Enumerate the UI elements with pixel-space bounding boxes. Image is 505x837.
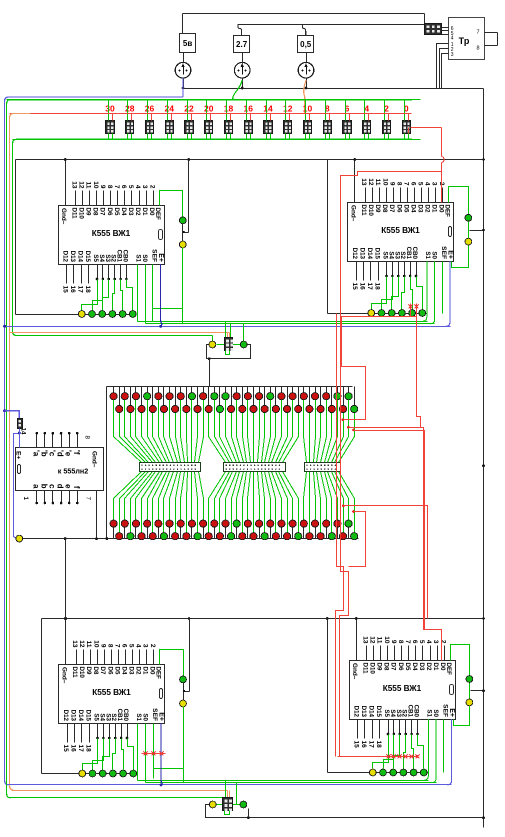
svg-text:15: 15 xyxy=(351,283,358,291)
svg-text:16: 16 xyxy=(70,745,77,753)
svg-text:7: 7 xyxy=(476,30,479,36)
svg-text:10: 10 xyxy=(381,178,388,186)
svg-text:SEF: SEF xyxy=(151,249,158,262)
svg-text:CB0: CB0 xyxy=(413,705,420,718)
svg-text:7: 7 xyxy=(402,182,409,186)
svg-text:D12: D12 xyxy=(62,710,69,722)
svg-text:к 555лн2: к 555лн2 xyxy=(58,467,89,476)
svg-text:E+: E+ xyxy=(157,253,164,262)
svg-text:7: 7 xyxy=(85,497,92,501)
svg-text:13: 13 xyxy=(360,178,367,186)
svg-text:SEF: SEF xyxy=(440,246,447,259)
svg-text:D3: D3 xyxy=(418,663,425,671)
svg-text:К555 ВЖ1: К555 ВЖ1 xyxy=(92,229,131,238)
svg-text:8: 8 xyxy=(395,182,402,186)
svg-text:S0: S0 xyxy=(431,251,438,259)
svg-text:5: 5 xyxy=(418,640,425,644)
svg-text:4: 4 xyxy=(134,185,141,189)
svg-text:D14: D14 xyxy=(77,710,84,722)
svg-text:6: 6 xyxy=(120,185,127,189)
svg-text:16: 16 xyxy=(69,286,76,294)
svg-text:6: 6 xyxy=(411,640,418,644)
svg-text:D14: D14 xyxy=(367,706,374,718)
svg-text:Тр: Тр xyxy=(459,36,470,46)
svg-text:D7: D7 xyxy=(388,205,395,213)
svg-text:18: 18 xyxy=(84,745,91,753)
svg-text:7: 7 xyxy=(113,185,120,189)
svg-text:10: 10 xyxy=(92,640,99,648)
svg-text:Gnd–: Gnd– xyxy=(351,663,358,680)
svg-text:SEF: SEF xyxy=(151,708,158,721)
svg-text:Gnd–: Gnd– xyxy=(61,667,68,684)
svg-text:17: 17 xyxy=(366,283,373,291)
svg-text:D13: D13 xyxy=(69,710,76,722)
svg-text:5: 5 xyxy=(417,182,424,186)
svg-text:7: 7 xyxy=(404,640,411,644)
svg-text:D1: D1 xyxy=(141,208,148,216)
svg-text:D10: D10 xyxy=(78,667,85,679)
svg-text:16: 16 xyxy=(360,741,367,749)
svg-text:E+: E+ xyxy=(15,451,22,459)
svg-text:6: 6 xyxy=(121,644,128,648)
svg-text:2: 2 xyxy=(148,185,155,189)
svg-text:16: 16 xyxy=(359,283,366,291)
svg-text:DEF: DEF xyxy=(445,663,452,676)
svg-text:D5: D5 xyxy=(113,667,120,675)
svg-text:8: 8 xyxy=(106,644,113,648)
svg-text:e: e xyxy=(64,484,73,489)
svg-text:3: 3 xyxy=(431,182,438,186)
svg-text:D11: D11 xyxy=(360,205,367,217)
svg-text:15: 15 xyxy=(62,745,69,753)
svg-text:D6: D6 xyxy=(397,663,404,671)
svg-text:2: 2 xyxy=(439,640,446,644)
svg-text:S0: S0 xyxy=(141,254,148,262)
svg-text:12: 12 xyxy=(369,636,376,644)
svg-text:S1: S1 xyxy=(135,713,142,721)
svg-text:17: 17 xyxy=(76,286,83,294)
svg-text:SEF: SEF xyxy=(442,704,449,717)
svg-text:Gnd–: Gnd– xyxy=(60,208,67,225)
svg-text:0,5: 0,5 xyxy=(300,40,312,49)
svg-text:D2: D2 xyxy=(134,208,141,216)
svg-text:E+: E+ xyxy=(447,250,454,259)
svg-text:20: 20 xyxy=(204,104,214,114)
svg-text:b: b xyxy=(39,484,48,489)
svg-text:13: 13 xyxy=(362,636,369,644)
svg-text:D7: D7 xyxy=(390,663,397,671)
svg-text:D4: D4 xyxy=(409,205,416,213)
svg-text:5: 5 xyxy=(127,185,134,189)
svg-text:D1: D1 xyxy=(432,663,439,671)
svg-text:17: 17 xyxy=(367,741,374,749)
svg-text:D6: D6 xyxy=(106,667,113,675)
svg-text:D10: D10 xyxy=(367,205,374,217)
svg-text:12: 12 xyxy=(78,640,85,648)
svg-text:D5: D5 xyxy=(402,205,409,213)
svg-text:DEF: DEF xyxy=(154,208,161,221)
svg-text:D9: D9 xyxy=(85,208,92,216)
svg-text:9: 9 xyxy=(99,644,106,648)
svg-text:18: 18 xyxy=(224,104,234,114)
svg-text:D9: D9 xyxy=(374,205,381,213)
svg-text:12: 12 xyxy=(283,104,293,114)
svg-text:14: 14 xyxy=(263,104,273,114)
svg-text:11: 11 xyxy=(85,182,92,189)
svg-text:К555 ВЖ1: К555 ВЖ1 xyxy=(381,226,420,235)
svg-text:c: c xyxy=(48,484,57,489)
svg-text:D8: D8 xyxy=(92,667,99,675)
svg-text:D4: D4 xyxy=(120,208,127,216)
svg-text:D3: D3 xyxy=(416,205,423,213)
svg-text:D4: D4 xyxy=(411,663,418,671)
svg-text:D10: D10 xyxy=(78,208,85,220)
svg-text:10: 10 xyxy=(383,636,390,644)
svg-text:D13: D13 xyxy=(358,248,365,260)
svg-text:D9: D9 xyxy=(85,667,92,675)
svg-text:D5: D5 xyxy=(404,663,411,671)
svg-text:D3: D3 xyxy=(127,208,134,216)
svg-text:24: 24 xyxy=(165,104,175,114)
svg-text:S0: S0 xyxy=(142,713,149,721)
svg-text:3: 3 xyxy=(142,644,149,648)
svg-text:30: 30 xyxy=(105,104,115,114)
svg-text:9: 9 xyxy=(388,182,395,186)
svg-text:D6: D6 xyxy=(106,208,113,216)
svg-text:'e: 'e xyxy=(64,450,73,457)
svg-text:D15: D15 xyxy=(373,248,380,260)
svg-text:18: 18 xyxy=(373,283,380,291)
svg-text:D12: D12 xyxy=(351,248,358,260)
svg-text:f: f xyxy=(72,486,81,489)
svg-text:S1: S1 xyxy=(135,254,142,262)
svg-text:К555 ВЖ1: К555 ВЖ1 xyxy=(383,684,422,693)
svg-text:D8: D8 xyxy=(381,205,388,213)
svg-text:11: 11 xyxy=(376,637,383,644)
svg-text:1: 1 xyxy=(22,497,29,501)
svg-text:a: a xyxy=(31,484,40,489)
svg-text:CB0: CB0 xyxy=(122,709,129,722)
svg-text:D1: D1 xyxy=(142,667,149,675)
svg-text:D15: D15 xyxy=(375,706,382,718)
svg-text:7: 7 xyxy=(113,644,120,648)
svg-text:D14: D14 xyxy=(76,251,83,263)
svg-text:11: 11 xyxy=(374,179,381,186)
svg-text:Gnd–: Gnd– xyxy=(350,205,357,222)
svg-text:D15: D15 xyxy=(84,251,91,263)
svg-text:8: 8 xyxy=(106,185,113,189)
svg-text:9: 9 xyxy=(390,640,397,644)
svg-text:3: 3 xyxy=(432,640,439,644)
svg-text:S1: S1 xyxy=(426,709,433,717)
svg-text:E+: E+ xyxy=(158,712,165,721)
svg-text:S1: S1 xyxy=(424,251,431,259)
svg-text:16: 16 xyxy=(244,104,254,114)
svg-text:D11: D11 xyxy=(71,667,78,679)
svg-text:4: 4 xyxy=(135,644,142,648)
svg-text:CB0: CB0 xyxy=(411,247,418,260)
svg-text:12: 12 xyxy=(367,178,374,186)
svg-text:3: 3 xyxy=(141,185,148,189)
svg-text:6: 6 xyxy=(410,182,417,186)
svg-text:D15: D15 xyxy=(84,710,91,722)
svg-text:12: 12 xyxy=(78,181,85,189)
svg-text:D3: D3 xyxy=(127,667,134,675)
svg-text:Gnd–: Gnd– xyxy=(91,451,98,468)
svg-text:D2: D2 xyxy=(425,663,432,671)
svg-text:D6: D6 xyxy=(395,205,402,213)
svg-text:2: 2 xyxy=(149,644,156,648)
svg-text:5в: 5в xyxy=(183,39,192,48)
svg-text:22: 22 xyxy=(184,104,194,114)
svg-text:D8: D8 xyxy=(383,663,390,671)
svg-text:13: 13 xyxy=(71,181,78,189)
svg-text:D1: D1 xyxy=(431,205,438,213)
svg-text:'a: 'a xyxy=(31,450,40,457)
svg-text:D12: D12 xyxy=(353,706,360,718)
svg-text:D11: D11 xyxy=(71,208,78,220)
svg-text:5: 5 xyxy=(128,644,135,648)
svg-text:8: 8 xyxy=(84,436,91,440)
svg-text:D10: D10 xyxy=(369,663,376,675)
svg-text:13: 13 xyxy=(71,640,78,648)
svg-text:9: 9 xyxy=(99,185,106,189)
svg-text:D4: D4 xyxy=(120,667,127,675)
svg-text:DEF: DEF xyxy=(155,667,162,680)
svg-text:'c: 'c xyxy=(48,450,57,457)
svg-text:D2: D2 xyxy=(135,667,142,675)
svg-text:15: 15 xyxy=(353,741,360,749)
svg-text:17: 17 xyxy=(77,745,84,753)
svg-text:d: d xyxy=(56,484,65,489)
svg-text:D12: D12 xyxy=(62,251,69,263)
svg-text:D7: D7 xyxy=(99,208,106,216)
svg-text:D11: D11 xyxy=(362,663,369,675)
svg-text:18: 18 xyxy=(375,741,382,749)
svg-text:2.7: 2.7 xyxy=(236,40,248,49)
svg-text:D8: D8 xyxy=(92,208,99,216)
svg-text:E+: E+ xyxy=(448,708,455,717)
svg-text:К555 ВЖ1: К555 ВЖ1 xyxy=(92,688,131,697)
svg-text:CB0: CB0 xyxy=(122,250,129,263)
svg-text:'d: 'd xyxy=(56,450,65,457)
svg-text:S0: S0 xyxy=(432,709,439,717)
svg-text:D13: D13 xyxy=(69,251,76,263)
svg-text:4: 4 xyxy=(425,640,432,644)
svg-text:4: 4 xyxy=(364,104,369,114)
svg-text:10: 10 xyxy=(303,104,313,114)
svg-text:4: 4 xyxy=(424,182,431,186)
svg-text:26: 26 xyxy=(145,104,155,114)
svg-text:D14: D14 xyxy=(366,248,373,260)
svg-text:D9: D9 xyxy=(376,663,383,671)
svg-text:11: 11 xyxy=(85,641,92,648)
svg-text:D13: D13 xyxy=(360,706,367,718)
svg-text:28: 28 xyxy=(125,104,135,114)
svg-text:DEF: DEF xyxy=(444,205,451,218)
svg-text:18: 18 xyxy=(84,286,91,294)
svg-text:'b: 'b xyxy=(39,450,48,457)
svg-text:15: 15 xyxy=(62,286,69,294)
svg-text:4: 4 xyxy=(451,36,454,42)
svg-text:D7: D7 xyxy=(99,667,106,675)
svg-text:D2: D2 xyxy=(424,205,431,213)
svg-text:'f: 'f xyxy=(72,450,81,455)
svg-text:3: 3 xyxy=(451,52,454,58)
svg-text:D5: D5 xyxy=(113,208,120,216)
svg-text:10: 10 xyxy=(92,181,99,189)
svg-text:8: 8 xyxy=(397,640,404,644)
svg-text:8: 8 xyxy=(476,46,479,52)
